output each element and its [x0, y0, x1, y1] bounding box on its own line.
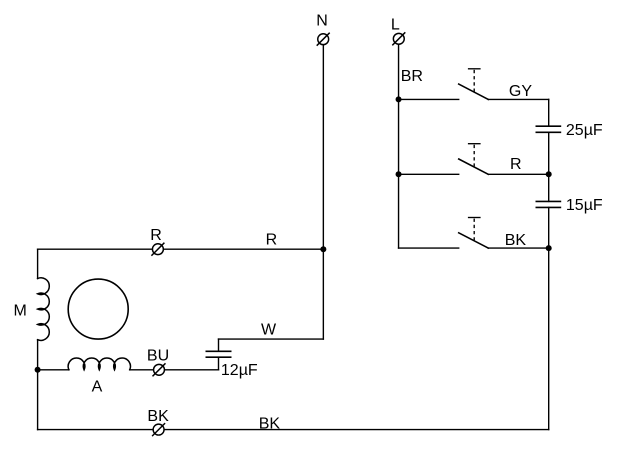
svg-text:R: R — [266, 231, 278, 248]
wire bus upper — [548, 99, 550, 126]
junction L branch 2 — [396, 171, 402, 177]
svg-text:L: L — [391, 16, 400, 33]
junction left vertical and A coil — [35, 367, 41, 373]
svg-text:N: N — [316, 13, 328, 30]
terminal N — [317, 33, 330, 46]
wire bus between capacitors — [548, 132, 550, 201]
wire left vertical lower — [37, 340, 39, 430]
terminal BU — [153, 363, 166, 376]
svg-text:A: A — [92, 379, 103, 396]
switch S3 actuator — [468, 218, 481, 241]
terminal BK — [152, 423, 165, 436]
terminal L — [392, 32, 405, 45]
svg-text:BR: BR — [401, 68, 423, 85]
svg-text:BK: BK — [259, 416, 281, 433]
svg-text:15µF: 15µF — [566, 197, 603, 214]
wire bus lower — [548, 207, 550, 429]
svg-text:M: M — [14, 302, 27, 319]
switch S2 blade — [459, 159, 489, 174]
svg-text:R: R — [150, 227, 162, 244]
wire switch S3 right lead — [488, 247, 548, 249]
switch S1 actuator — [468, 69, 481, 92]
winding A coil — [68, 358, 130, 370]
svg-text:BK: BK — [505, 232, 527, 249]
wire W horizontal — [219, 338, 324, 340]
capacitor C1 12uF — [206, 351, 232, 357]
wire N vertical — [322, 45, 324, 250]
svg-text:R: R — [510, 156, 522, 173]
junction L branch 1 — [396, 96, 402, 102]
wire junction to A coil — [38, 369, 69, 371]
wire capacitor C1 bottom stub — [218, 357, 220, 370]
wire switch S3 left lead — [399, 247, 459, 249]
wire left vertical upper — [37, 249, 39, 278]
wire switch S2 left lead — [399, 173, 459, 175]
svg-text:GY: GY — [509, 83, 532, 100]
terminal R — [151, 243, 164, 256]
switch S2 actuator — [468, 144, 481, 167]
wire capacitor C1 top stub — [218, 339, 220, 351]
junction bus branch 3 — [546, 245, 552, 251]
svg-text:12µF: 12µF — [221, 362, 258, 379]
switch S3 blade — [459, 233, 489, 248]
wire switch S1 right lead — [488, 98, 548, 100]
wire N down to W corner — [322, 249, 324, 339]
capacitor C3 15uF — [536, 201, 562, 207]
switch S1 blade — [459, 84, 489, 99]
wire switch S1 left lead — [399, 98, 459, 100]
wire A coil to capacitor C1 — [130, 369, 219, 371]
svg-text:BU: BU — [147, 348, 169, 365]
junction N R wire — [320, 246, 326, 252]
wire R main horizontal — [38, 248, 324, 250]
svg-text:BK: BK — [147, 408, 169, 425]
capacitor C2 25uF — [536, 126, 562, 132]
wire L vertical — [398, 44, 400, 248]
junction bus branch 2 — [546, 171, 552, 177]
svg-text:25µF: 25µF — [566, 122, 603, 139]
winding M coil — [38, 278, 50, 341]
svg-text:W: W — [261, 321, 277, 338]
wire BK bottom horizontal — [38, 429, 549, 431]
motor body M1 — [68, 279, 128, 339]
wire switch S2 right lead — [488, 173, 548, 175]
